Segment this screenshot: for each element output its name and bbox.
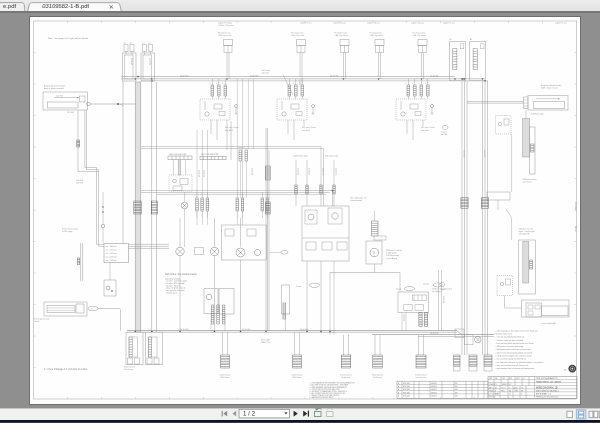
connector stack V2 [151, 201, 157, 214]
wire M down2 [497, 200, 499, 210]
company logo [568, 365, 576, 373]
wire lamp2 down [214, 256, 216, 331]
wire B1-1 [461, 81, 463, 355]
junction [343, 78, 345, 80]
junction B2 [482, 78, 484, 80]
wire diag [506, 209, 512, 218]
pill ref 2 [440, 283, 445, 287]
wire H2 drop [118, 104, 123, 107]
wire manifold d2 [320, 261, 322, 331]
junction low [214, 331, 216, 333]
wire B1-2 [464, 81, 466, 355]
wire lamp1 down [179, 256, 181, 331]
relay cluster K1 [211, 79, 213, 85]
wire drop 441 [440, 270, 442, 331]
bus H1 lower [121, 78, 485, 80]
wire TC6 drop [299, 79, 301, 85]
wire V2a [151, 82, 153, 332]
tab bar bottom edge [0, 11, 600, 12]
connector BC4 [343, 335, 345, 355]
junction [454, 78, 456, 80]
connector BC7 [454, 355, 461, 366]
wire K1 drop2 [230, 121, 232, 160]
bus H3 join [457, 331, 462, 335]
wire Hrun1b [141, 147, 323, 149]
junction [151, 78, 153, 80]
ribbon drop strip1 [178, 160, 181, 175]
leader line K2 [283, 75, 293, 96]
junction ring [101, 224, 104, 227]
license light R2 [522, 300, 570, 317]
junction low [134, 331, 136, 333]
hydraulic manifold [302, 206, 349, 261]
wire T2 down [504, 296, 506, 309]
wire Hrun2b [141, 191, 330, 193]
center strip wires [172, 160, 174, 175]
pump relay box [374, 236, 386, 240]
junction Hrun2 [332, 190, 334, 192]
pump motor 2 symbol [475, 336, 481, 342]
park brake switch A [204, 289, 218, 314]
bus H3d [418, 336, 494, 338]
pressure switch block [398, 292, 429, 313]
bottom toolbar [0, 408, 600, 421]
frame zone ticks [66, 21, 68, 23]
connector stack V4b [265, 202, 270, 214]
single page layout icon [567, 411, 573, 417]
wire H-R1a [467, 100, 524, 102]
pump connector bar [372, 221, 379, 236]
wire V2b [155, 82, 157, 332]
wire Hrun1a [141, 146, 321, 148]
wire H4 left drop [329, 273, 331, 335]
wire center v1 [214, 218, 216, 247]
wire T1 up [525, 110, 527, 119]
B1 hatch [461, 198, 468, 209]
wire V4a [265, 128, 267, 331]
wire L3 out [98, 309, 121, 331]
center relay box [169, 175, 192, 192]
wire V3c [102, 192, 104, 224]
wire H-R1b [467, 102, 524, 104]
hyd feed wires [295, 160, 297, 206]
relay component L2b [104, 280, 116, 296]
connector stack V4a [265, 166, 270, 180]
junction low [320, 331, 322, 333]
wire B2-3 [487, 81, 489, 355]
wire V3d [102, 228, 104, 243]
background tab e.pdf [0, 2, 25, 13]
pill ref 1 [442, 126, 448, 130]
svg-text:1 / 2: 1 / 2 [243, 411, 256, 418]
wire pump up [373, 211, 375, 221]
connector BC8 [469, 355, 477, 366]
connector BC1b [146, 332, 163, 365]
prev page button [232, 411, 236, 417]
wire valve down [240, 260, 242, 331]
lamp L2 [210, 247, 218, 255]
first page button [222, 411, 227, 417]
wire manifold d1 [306, 261, 308, 331]
rotate cw icon (disabled) [327, 408, 334, 416]
wire V4c [268, 150, 270, 331]
bus junction block 1 [455, 329, 464, 338]
junction [462, 78, 464, 80]
junction low [179, 331, 181, 333]
connector BC2 [222, 332, 224, 355]
pill small center [281, 251, 288, 255]
center ladders row2 [196, 198, 199, 211]
revision table [397, 381, 488, 398]
junction H2 [117, 103, 119, 105]
resistor assembly T1 [523, 119, 530, 158]
wire V4b [267, 128, 269, 331]
connector BC3 [294, 332, 296, 355]
junction low [240, 331, 242, 333]
wire T2-R2 [505, 307, 522, 309]
motor symbol center [181, 202, 188, 209]
wire manifold d3 [333, 261, 335, 335]
wire left branch [78, 110, 99, 172]
valve block assembly [222, 225, 267, 260]
terminal strip 2 [200, 156, 226, 159]
small box between lamps [195, 248, 204, 255]
ground stud L3 [44, 302, 87, 316]
splice cluster L2 [80, 243, 82, 281]
junction [226, 78, 228, 80]
junction [378, 78, 380, 80]
bus H3a [127, 330, 457, 332]
harness ribbon V1 [135, 82, 141, 332]
last page button [303, 411, 308, 417]
connector BC9 [484, 355, 492, 366]
B2 hatch [481, 198, 488, 209]
junction [421, 78, 423, 80]
wire Hrun1b-drop [322, 148, 324, 206]
wire T2 feed [511, 218, 513, 240]
junction low [329, 331, 331, 333]
wire center v2 [179, 218, 181, 247]
junction b2 [137, 76, 139, 78]
wire pump down [373, 264, 375, 273]
connector BC1a [126, 332, 143, 365]
bus H3b [127, 331, 457, 333]
rotate ccw icon [315, 408, 322, 417]
wire CB1-left-down [122, 81, 124, 248]
junction low [306, 331, 308, 333]
connector stack V1 [134, 201, 141, 214]
junction [134, 78, 136, 80]
pump motor M1 [366, 241, 382, 264]
pressure conn ladders [419, 312, 422, 326]
terminal strip 1 [168, 156, 192, 160]
junction low [151, 331, 153, 333]
active tab 03109582-1-B.pdf [27, 2, 123, 13]
center bus drop wires [196, 130, 198, 198]
wire Hrun2a [141, 190, 333, 192]
wire drop 438 [437, 270, 439, 331]
tab bar [0, 0, 600, 12]
wire center v3 [240, 218, 242, 247]
junction B1 [461, 78, 463, 80]
wire Hrun2c [157, 193, 326, 195]
wire V3a [85, 110, 169, 244]
relay cluster K2 [288, 79, 290, 85]
right junction comp [487, 192, 510, 200]
wire B2-2 [484, 81, 486, 355]
next page button [294, 411, 298, 417]
wire M down [511, 134, 513, 192]
connector BC6 [418, 335, 420, 355]
partial icon at edge [599, 411, 600, 417]
lamp L1 [176, 247, 184, 255]
junction b3 [151, 80, 153, 82]
page number field [239, 409, 290, 418]
park brake switch B [282, 285, 290, 314]
continuous layout icon (selected) [576, 410, 586, 419]
wire Hrun1a-drop [320, 147, 322, 160]
connector BC5 [374, 335, 376, 355]
wire B2-1 [481, 81, 483, 355]
facing pages layout icon [589, 411, 598, 417]
wire H4 [330, 272, 400, 274]
wire H4 right drop [399, 273, 401, 293]
wire Hrun2a-drop [332, 191, 334, 206]
wire mid-left-horiz [123, 247, 169, 249]
wire K1 drop1 [226, 126, 228, 150]
bottom dark strip [0, 420, 600, 423]
junction dots L2 [102, 206, 104, 208]
junction low [265, 331, 267, 333]
wire H2 [90, 103, 136, 105]
bus junction block 2 [465, 335, 474, 345]
wire B1-3 [466, 81, 468, 355]
bus H3c [372, 334, 494, 336]
relay cluster K3 [407, 79, 409, 85]
wire V3b [86, 110, 169, 246]
title block [488, 377, 577, 399]
connector stack V3 [77, 140, 80, 147]
right relay M [496, 116, 512, 135]
bus H1b [141, 80, 488, 82]
bus H1 upper [121, 76, 455, 78]
